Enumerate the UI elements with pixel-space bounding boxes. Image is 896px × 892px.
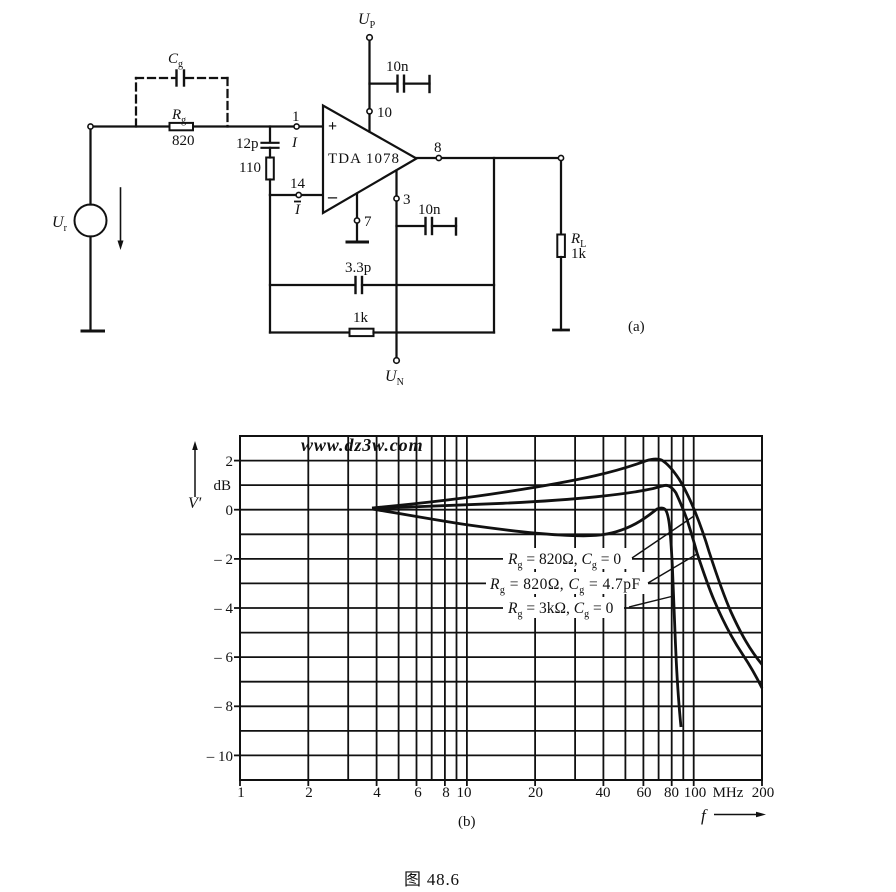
capacitor 10n lower plates (426, 218, 433, 234)
svg-text:MHz: MHz (713, 785, 744, 801)
wire source top lead (89, 127, 91, 205)
ground below RL (554, 329, 569, 332)
leader line to top curve (632, 516, 694, 558)
chart grid vertical lines (308, 436, 693, 780)
svg-text:110: 110 (239, 160, 261, 176)
node pin 14 (296, 192, 301, 197)
chart axis ticks bottom (240, 780, 762, 786)
terminal bar of lower 10n (455, 219, 457, 235)
wire 12p to 110 (269, 148, 271, 158)
svg-text:–: – (327, 186, 338, 206)
capacitor Cg dashed top lead right (186, 77, 228, 79)
svg-text:(b): (b) (458, 814, 476, 830)
chart grid horizontal lines (240, 461, 762, 756)
node output right (558, 155, 563, 160)
capacitor Cg dashed bypass box left side (135, 78, 137, 127)
capacitor Cg plates (177, 71, 185, 86)
chart x axis labels (237, 785, 774, 801)
svg-text:80: 80 (664, 785, 679, 801)
current direction arrow (118, 188, 124, 250)
wire 10n decoupling branch top (370, 82, 397, 84)
wire feedback 1k line left (270, 331, 350, 333)
svg-text:– 2: – 2 (213, 552, 233, 568)
wire 10n lower branch (397, 225, 425, 227)
chart axis ticks left (234, 461, 240, 756)
svg-text:14: 14 (290, 176, 306, 192)
curve Rg820 Cg4p7 middle response (372, 485, 762, 688)
svg-text:20: 20 (528, 785, 543, 801)
svg-text:1k: 1k (571, 246, 587, 262)
svg-text:2: 2 (305, 785, 313, 801)
svg-text:8: 8 (434, 140, 442, 156)
svg-text:– 6: – 6 (213, 650, 233, 666)
svg-text:(a): (a) (628, 319, 645, 335)
svg-text:– 8: – 8 (213, 699, 233, 715)
svg-text:4: 4 (373, 785, 381, 801)
curve Rg820 Cg0 top response (372, 459, 762, 664)
leader line to bottom curve (629, 596, 674, 607)
svg-text:1k: 1k (353, 310, 369, 326)
svg-text:10: 10 (377, 105, 392, 121)
wire output pin 8 (417, 157, 562, 159)
wire left feedback riser (269, 195, 271, 333)
leader line to middle curve (648, 554, 697, 583)
wire input net from source to op-amp pin 1 (91, 125, 324, 127)
svg-text:10n: 10n (386, 59, 409, 75)
svg-text:40: 40 (596, 785, 611, 801)
svg-text:12p: 12p (236, 136, 259, 152)
wire positive supply U_P drop to pin 10 (368, 40, 370, 132)
capacitor Cg dashed box right side (226, 78, 228, 127)
svg-text:8: 8 (442, 785, 450, 801)
resistor 1k body (350, 329, 374, 336)
svg-text:– 4: – 4 (213, 601, 233, 617)
svg-text:0: 0 (226, 503, 234, 519)
wire RL bottom lead (560, 257, 562, 330)
capacitor 10n top plates (398, 76, 405, 92)
chart border frame (240, 436, 762, 780)
svg-text:10: 10 (457, 785, 472, 801)
svg-text:3.3p: 3.3p (345, 260, 371, 276)
wire 110 to inverting input node (269, 180, 271, 196)
wire feedback 1k line right (374, 331, 495, 333)
node pin 10 (367, 109, 372, 114)
chart y axis labels (206, 454, 234, 765)
capacitor Cg dashed top lead left (136, 77, 175, 79)
node pin 3 (394, 196, 399, 201)
node input left (88, 124, 93, 129)
svg-text:3: 3 (403, 192, 411, 208)
node pin 1 (294, 124, 299, 129)
wire load branch down (560, 158, 562, 235)
svg-text:I: I (291, 135, 298, 151)
svg-text:TDA 1078: TDA 1078 (328, 151, 399, 167)
node U_P terminal (367, 35, 373, 41)
svg-text:1: 1 (292, 109, 300, 125)
svg-text:7: 7 (364, 214, 372, 230)
svg-text:100: 100 (684, 785, 707, 801)
wire pin 3 negative supply drop (395, 171, 397, 359)
node U_N terminal (394, 358, 400, 364)
ground below pin 7 (347, 241, 368, 244)
capacitor 12p top lead (269, 127, 271, 143)
svg-text:10n: 10n (418, 202, 441, 218)
curve Rg3k Cg0 bottom response (372, 508, 681, 727)
svg-text:60: 60 (637, 785, 652, 801)
svg-text:1: 1 (237, 785, 245, 801)
wire 10n top right lead (404, 82, 430, 84)
svg-text:dB: dB (213, 478, 231, 494)
wire output feedback drop (493, 158, 495, 333)
svg-text:2: 2 (226, 454, 234, 470)
wire 10n lower right lead (432, 225, 456, 227)
node pin 8 (436, 155, 441, 160)
capacitor 3.3p plates (356, 277, 363, 293)
curve label backgrounds (486, 548, 648, 618)
svg-text:www.dz3w.com: www.dz3w.com (301, 435, 423, 455)
resistor RL body (557, 235, 565, 258)
svg-text:6: 6 (414, 785, 422, 801)
svg-text:I: I (294, 202, 301, 218)
svg-text:V′: V′ (188, 495, 202, 512)
resistor Rg body (170, 123, 194, 130)
wire feedback 3.3p line left (270, 284, 354, 286)
resistor 110 body (266, 158, 274, 180)
svg-text:+: + (328, 118, 337, 135)
ground below source (82, 330, 104, 333)
op-amp U1 TDA1078 triangle (323, 106, 417, 214)
wire source bottom lead to ground (89, 237, 91, 332)
wire feedback 3.3p line right (362, 284, 494, 286)
svg-text:图 48.6: 图 48.6 (404, 870, 460, 887)
wire op-amp pin 14 inverting input (270, 194, 323, 196)
terminal bar of top 10n (428, 76, 430, 92)
wire pin 7 drop (356, 194, 358, 243)
y axis arrow V' (188, 441, 202, 512)
svg-text:820: 820 (172, 133, 195, 149)
capacitor 12p plates (262, 143, 279, 148)
node pin 7 (354, 218, 359, 223)
voltage source U_r circle (75, 205, 107, 237)
svg-text:– 10: – 10 (206, 749, 233, 765)
x axis arrow f (701, 806, 766, 825)
svg-text:200: 200 (752, 785, 775, 801)
